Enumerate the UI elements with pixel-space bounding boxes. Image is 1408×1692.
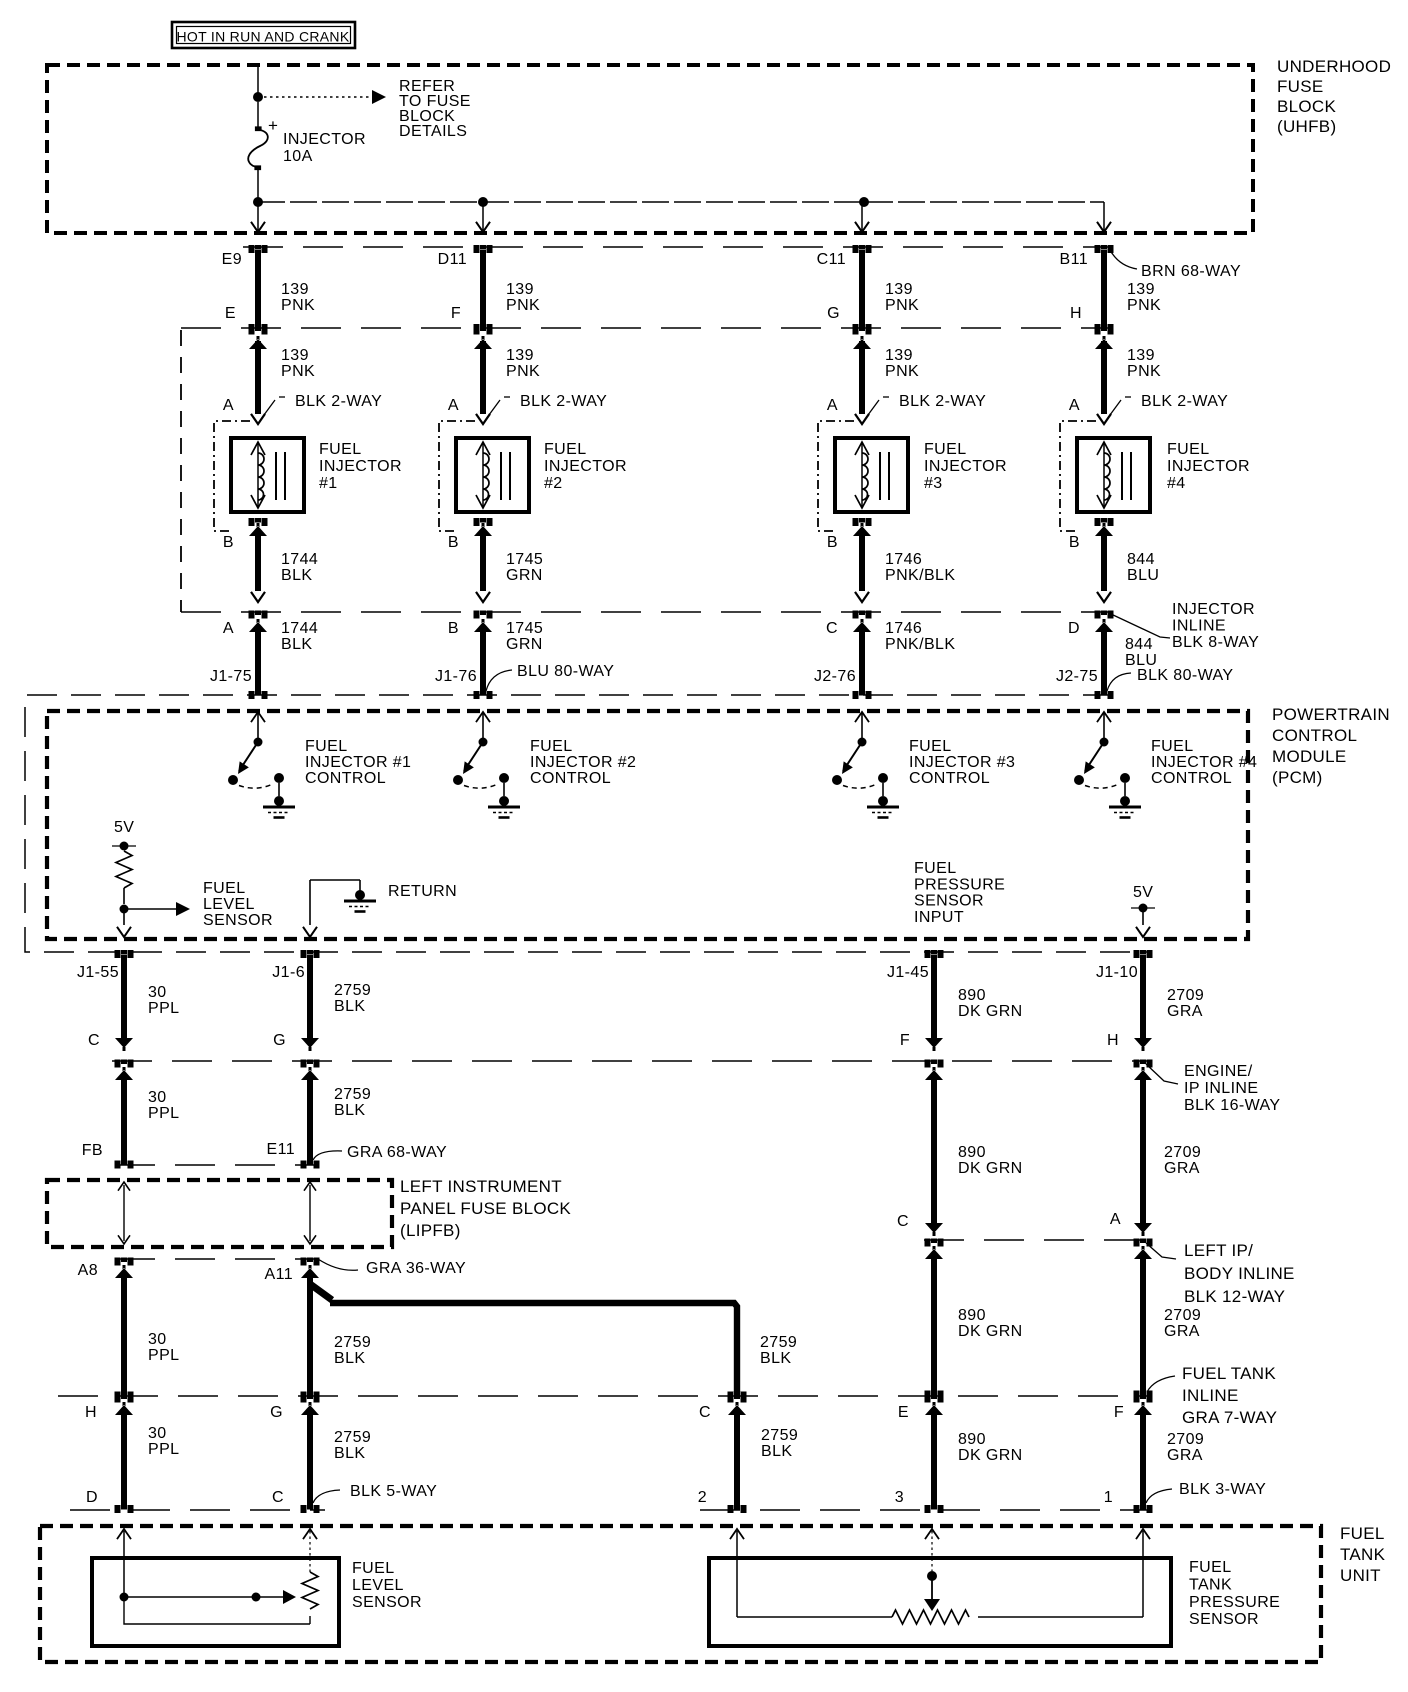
leader to BLK 2-WAY label #3 (865, 400, 879, 419)
svg-text:B: B (448, 534, 459, 551)
svg-text:LEVEL: LEVEL (352, 1577, 404, 1594)
node junction fuse output (253, 197, 263, 207)
wire 5V sense to J1-55 (123, 913, 125, 925)
ground at injector #1 driver (251, 712, 265, 722)
leader arrow to refer note (264, 96, 371, 98)
RETURN wire (309, 880, 311, 925)
leader to injector inline label (1111, 614, 1170, 638)
wire 890 DK GRN PCM J1-45 to pin F (925, 950, 944, 958)
svg-text:844: 844 (1127, 551, 1155, 568)
wire 139 PNK segment to injector #1 pin A (249, 327, 268, 335)
svg-text:J2-75: J2-75 (1056, 668, 1098, 685)
wire 139 PNK segment D11 to F (474, 245, 493, 253)
svg-text:BLK 2-WAY: BLK 2-WAY (295, 393, 382, 410)
svg-text:1746: 1746 (885, 620, 922, 637)
svg-text:C: C (699, 1404, 711, 1421)
svg-text:#4: #4 (1167, 475, 1186, 492)
svg-text:G: G (273, 1032, 286, 1049)
svg-text:INJECTOR: INJECTOR (283, 131, 366, 148)
arrow to FUEL LEVEL SENSOR label (124, 908, 176, 910)
svg-text:(LIPFB): (LIPFB) (400, 1221, 461, 1240)
svg-text:BLK 3-WAY: BLK 3-WAY (1179, 1481, 1266, 1498)
svg-text:INJECTOR #2: INJECTOR #2 (530, 754, 636, 771)
svg-text:890: 890 (958, 1431, 986, 1448)
svg-text:PPL: PPL (148, 1105, 179, 1122)
fuel level sensor box (92, 1558, 339, 1646)
svg-text:FUEL: FUEL (1340, 1524, 1385, 1543)
svg-text:2: 2 (698, 1489, 707, 1506)
svg-text:2759: 2759 (334, 1334, 371, 1351)
svg-text:1746: 1746 (885, 551, 922, 568)
svg-text:PRESSURE: PRESSURE (1189, 1594, 1280, 1611)
svg-text:139: 139 (885, 347, 913, 364)
svg-text:INJECTOR: INJECTOR (544, 458, 627, 475)
svg-text:LEFT IP/: LEFT IP/ (1184, 1241, 1253, 1260)
svg-text:TANK: TANK (1340, 1545, 1386, 1564)
svg-text:GRA: GRA (1164, 1160, 1200, 1177)
svg-text:C: C (826, 620, 838, 637)
svg-text:E: E (898, 1404, 909, 1421)
svg-text:GRA: GRA (1167, 1447, 1203, 1464)
leader to GRA 68-WAY label (313, 1151, 342, 1160)
PCM outer connector bracket (25, 695, 1150, 952)
svg-text:(UHFB): (UHFB) (1277, 117, 1336, 136)
PCM dashed boundary (47, 711, 1248, 939)
svg-text:INPUT: INPUT (914, 909, 964, 926)
svg-text:2709: 2709 (1164, 1144, 1201, 1161)
svg-text:FUEL: FUEL (352, 1560, 395, 1577)
svg-text:#3: #3 (924, 475, 943, 492)
wire inline to PCM J1-75 (249, 611, 268, 619)
svg-text:MODULE: MODULE (1272, 747, 1347, 766)
svg-text:BLK: BLK (334, 1445, 365, 1462)
svg-text:G: G (270, 1404, 283, 1421)
svg-text:FUEL: FUEL (914, 860, 957, 877)
svg-text:FB: FB (82, 1142, 103, 1159)
svg-text:1: 1 (1104, 1489, 1113, 1506)
fuel injector #1 coil (231, 438, 304, 512)
svg-text:1744: 1744 (281, 620, 318, 637)
svg-text:139: 139 (281, 347, 309, 364)
connector face line left IP body inline 12-way (924, 1239, 1147, 1241)
svg-text:C: C (897, 1213, 909, 1230)
leader to BLK 2-WAY label #2 (486, 400, 500, 419)
svg-text:2709: 2709 (1167, 1431, 1204, 1448)
connector face line row 328 (181, 327, 1112, 329)
svg-text:30: 30 (148, 1425, 167, 1442)
svg-text:2709: 2709 (1167, 987, 1204, 1004)
connector face line engine/IP inline 16-way (112, 1060, 1147, 1062)
svg-text:5V: 5V (114, 819, 134, 836)
connector bracket BLK 2-WAY #2 (439, 421, 475, 531)
leader to left IP body inline label (1146, 1243, 1176, 1259)
wire into pressure sensor right (1136, 1529, 1150, 1539)
svg-text:890: 890 (958, 1307, 986, 1324)
wire 139 PNK segment to injector #4 pin A (1095, 327, 1114, 335)
svg-text:DK GRN: DK GRN (958, 1003, 1023, 1020)
svg-text:H: H (85, 1404, 97, 1421)
wire 2709 GRA rowD pin F to 1 (1134, 1395, 1153, 1403)
svg-text:A11: A11 (265, 1266, 293, 1283)
svg-text:CONTROL: CONTROL (909, 770, 990, 787)
svg-text:C11: C11 (817, 251, 846, 268)
wire resistor return loop (124, 1601, 310, 1624)
svg-text:BLK 12-WAY: BLK 12-WAY (1184, 1287, 1285, 1306)
svg-text:J1-45: J1-45 (887, 964, 929, 981)
wire 139 PNK segment E9 to E (249, 245, 268, 253)
svg-text:POWERTRAIN: POWERTRAIN (1272, 705, 1390, 724)
svg-text:B: B (827, 534, 838, 551)
svg-text:CONTROL: CONTROL (305, 770, 386, 787)
svg-text:F: F (1114, 1404, 1124, 1421)
svg-text:F: F (900, 1032, 910, 1049)
svg-text:SENSOR: SENSOR (1189, 1611, 1259, 1628)
connector bracket BLK 2-WAY #3 (818, 421, 854, 531)
wire 30 PPL rowC col1 (115, 1258, 134, 1266)
wire injector #2 pin B to inline (474, 518, 493, 526)
svg-text:D: D (86, 1489, 98, 1506)
svg-text:30: 30 (148, 1089, 167, 1106)
svg-text:BLU 80-WAY: BLU 80-WAY (517, 663, 614, 680)
svg-text:SENSOR: SENSOR (914, 893, 984, 910)
ground at injector #3 driver (855, 712, 869, 722)
connector face line injector inline 8-way (181, 611, 1113, 613)
svg-text:C: C (88, 1032, 100, 1049)
connector face line BRN 68-WAY row (243, 246, 1112, 248)
node junction fuel level sense (120, 905, 129, 914)
svg-text:TANK: TANK (1189, 1576, 1232, 1593)
fuel injector #3 coil (835, 438, 908, 512)
leader to BRN 68-WAY label (1110, 250, 1137, 269)
svg-text:FUEL: FUEL (319, 441, 362, 458)
svg-text:BLK 80-WAY: BLK 80-WAY (1137, 667, 1233, 684)
svg-text:PNK: PNK (281, 363, 315, 380)
wire 2759 BLK rowC col2 (301, 1258, 320, 1266)
svg-text:INJECTOR: INJECTOR (319, 458, 402, 475)
fuel injector #2 coil (456, 438, 529, 512)
ground at injector #2 driver (476, 712, 490, 722)
svg-text:#1: #1 (319, 475, 338, 492)
svg-text:PRESSURE: PRESSURE (914, 876, 1005, 893)
svg-text:10A: 10A (283, 148, 313, 165)
svg-text:INJECTOR: INJECTOR (1172, 601, 1255, 618)
svg-text:BLK: BLK (761, 1443, 792, 1460)
label HOT IN RUN AND CRANK box (172, 22, 355, 48)
svg-text:B: B (1069, 534, 1080, 551)
svg-text:BRN 68-WAY: BRN 68-WAY (1141, 263, 1241, 280)
svg-text:BODY INLINE: BODY INLINE (1184, 1264, 1295, 1283)
svg-text:BLK 2-WAY: BLK 2-WAY (520, 393, 607, 410)
svg-text:J1-55: J1-55 (77, 964, 119, 981)
wire 139 PNK segment B11 to H (1095, 245, 1114, 253)
wire 139 PNK segment to injector #3 pin A (853, 327, 872, 335)
connector face line fuel tank inline 7-way (58, 1395, 1148, 1397)
svg-text:890: 890 (958, 1144, 986, 1161)
node junction bus col2 (478, 197, 488, 207)
node junction bus col3 (859, 197, 869, 207)
svg-text:INLINE: INLINE (1182, 1386, 1239, 1405)
svg-text:FUSE: FUSE (1277, 77, 1324, 96)
svg-text:BLK 2-WAY: BLK 2-WAY (1141, 393, 1228, 410)
pressure sensor wiper arrow (925, 1529, 939, 1539)
svg-text:F: F (451, 305, 461, 322)
svg-text:1745: 1745 (506, 551, 543, 568)
svg-text:E9: E9 (222, 251, 242, 268)
svg-text:J1-76: J1-76 (435, 668, 477, 685)
svg-text:PNK: PNK (1127, 297, 1161, 314)
svg-text:GRA: GRA (1167, 1003, 1203, 1020)
svg-text:A: A (1110, 1211, 1121, 1228)
svg-text:D: D (1068, 620, 1080, 637)
svg-text:1744: 1744 (281, 551, 318, 568)
svg-text:H: H (1107, 1032, 1119, 1049)
svg-text:J1-75: J1-75 (210, 668, 252, 685)
svg-text:BLK 8-WAY: BLK 8-WAY (1172, 634, 1259, 651)
engine harness boundary left edge (180, 330, 182, 612)
svg-text:BLK: BLK (334, 998, 365, 1015)
svg-text:FUEL: FUEL (544, 441, 587, 458)
svg-text:139: 139 (1127, 347, 1155, 364)
svg-text:FUEL: FUEL (530, 738, 573, 755)
svg-text:A: A (448, 397, 459, 414)
svg-text:INJECTOR #3: INJECTOR #3 (909, 754, 1015, 771)
svg-text:BLK 16-WAY: BLK 16-WAY (1184, 1097, 1280, 1114)
leader to BLK 2-WAY label #4 (1107, 400, 1121, 419)
svg-text:PNK: PNK (281, 297, 315, 314)
wire 2759 BLK PCM J1-6 to pin G (301, 950, 320, 958)
wire 30 PPL rowD pin H to D (115, 1395, 134, 1403)
svg-text:INJECTOR: INJECTOR (924, 458, 1007, 475)
ground RETURN (355, 890, 365, 900)
svg-text:844: 844 (1125, 636, 1153, 653)
left instrument panel fuse block dashed boundary (47, 1180, 392, 1247)
wire into fuel level sensor wiper (117, 1529, 131, 1539)
svg-text:PPL: PPL (148, 1441, 179, 1458)
svg-text:#2: #2 (544, 475, 563, 492)
wire inline to PCM J2-75 (1095, 611, 1114, 619)
svg-text:BLK 2-WAY: BLK 2-WAY (899, 393, 986, 410)
svg-text:2759: 2759 (334, 982, 371, 999)
svg-text:SENSOR: SENSOR (352, 1594, 422, 1611)
wire inline to PCM J2-76 (853, 611, 872, 619)
wire UHFB output drop B11 (1103, 202, 1105, 230)
svg-text:PNK/BLK: PNK/BLK (885, 636, 955, 653)
svg-text:FUEL: FUEL (203, 880, 246, 897)
svg-text:CONTROL: CONTROL (1272, 726, 1357, 745)
svg-text:BLK: BLK (334, 1350, 365, 1367)
wire 139 PNK segment to injector #2 pin A (474, 327, 493, 335)
svg-text:139: 139 (281, 281, 309, 298)
fuel level sensor resistor (303, 1529, 317, 1539)
svg-text:CONTROL: CONTROL (530, 770, 611, 787)
svg-text:(PCM): (PCM) (1272, 768, 1323, 787)
svg-text:FUEL: FUEL (1167, 441, 1210, 458)
wire 2759 BLK rowB col2 (301, 1060, 320, 1068)
svg-text:RETURN: RETURN (388, 883, 457, 900)
leader to BLK 80-WAY label (1107, 673, 1131, 691)
wire into pressure sensor left (730, 1529, 744, 1539)
connector face line fuel tank unit right (700, 1509, 1148, 1511)
svg-text:BLK 5-WAY: BLK 5-WAY (350, 1483, 437, 1500)
svg-text:+: + (268, 116, 278, 135)
svg-text:3: 3 (895, 1489, 904, 1506)
pressure sensor resistor (737, 1616, 892, 1618)
svg-text:A8: A8 (78, 1262, 98, 1279)
connector bracket BLK 2-WAY #1 (214, 421, 250, 531)
svg-text:1745: 1745 (506, 620, 543, 637)
wire 2759 BLK rowD pin G to C (301, 1395, 320, 1403)
svg-text:E: E (225, 305, 236, 322)
wire UHFB output drop E9 (257, 202, 259, 230)
connector bracket BLK 2-WAY #4 (1060, 421, 1096, 531)
svg-text:FUEL: FUEL (1189, 1559, 1232, 1576)
svg-text:PNK: PNK (506, 363, 540, 380)
node junction wiper (120, 1593, 129, 1602)
svg-text:139: 139 (506, 281, 534, 298)
svg-text:GRA 68-WAY: GRA 68-WAY (347, 1144, 447, 1161)
svg-text:PPL: PPL (148, 1347, 179, 1364)
svg-text:PNK/BLK: PNK/BLK (885, 567, 955, 584)
svg-text:GRA 36-WAY: GRA 36-WAY (366, 1260, 466, 1277)
svg-text:INJECTOR: INJECTOR (1167, 458, 1250, 475)
wire 2709 GRA PCM J1-10 to pin H (1134, 950, 1153, 958)
svg-text:2759: 2759 (334, 1086, 371, 1103)
svg-text:PPL: PPL (148, 1000, 179, 1017)
wire 30 PPL PCM J1-55 to pin C (115, 950, 134, 958)
svg-text:FUEL: FUEL (1151, 738, 1194, 755)
connector face line LIPFB top (115, 1164, 318, 1166)
leader to BLK 5-WAY label (313, 1490, 340, 1503)
leader to BLK 2-WAY label #1 (261, 400, 275, 419)
svg-text:5V: 5V (1133, 884, 1153, 901)
svg-text:INJECTOR #1: INJECTOR #1 (305, 754, 411, 771)
svg-text:INLINE: INLINE (1172, 618, 1226, 635)
svg-text:BLK: BLK (334, 1102, 365, 1119)
svg-text:ENGINE/: ENGINE/ (1184, 1063, 1253, 1080)
svg-text:FUEL: FUEL (924, 441, 967, 458)
wire inline to PCM J1-76 (474, 611, 493, 619)
wire 2709 GRA rowC col4 (1134, 1239, 1153, 1247)
svg-text:139: 139 (885, 281, 913, 298)
wire injector #1 pin B to inline (249, 518, 268, 526)
svg-text:C: C (272, 1489, 284, 1506)
svg-text:UNIT: UNIT (1340, 1566, 1381, 1585)
fuse INJECTOR 10A (257, 102, 259, 127)
svg-text:J1-6: J1-6 (272, 964, 305, 981)
svg-text:HOT IN RUN AND CRANK: HOT IN RUN AND CRANK (177, 29, 350, 45)
svg-text:A: A (827, 397, 838, 414)
node junction at fuse top (253, 92, 263, 102)
connector face line fuel tank unit left (70, 1509, 325, 1511)
wire 2759 BLK branch to fuel tank connector pin C (310, 1284, 332, 1300)
svg-text:PANEL FUSE BLOCK: PANEL FUSE BLOCK (400, 1199, 571, 1218)
svg-text:A: A (1069, 397, 1080, 414)
svg-text:FUEL TANK: FUEL TANK (1182, 1364, 1276, 1383)
svg-text:DK GRN: DK GRN (958, 1323, 1023, 1340)
underhood fuse block UHFB dashed boundary (47, 65, 1253, 233)
svg-text:FUEL: FUEL (909, 738, 952, 755)
svg-text:2709: 2709 (1164, 1307, 1201, 1324)
svg-text:LEFT INSTRUMENT: LEFT INSTRUMENT (400, 1177, 562, 1196)
UHFB feed bus wire (258, 201, 1104, 203)
wire 30 PPL rowB left col1 (115, 1060, 134, 1068)
svg-text:B: B (223, 534, 234, 551)
wire 139 PNK segment C11 to G (853, 245, 872, 253)
svg-text:LEVEL: LEVEL (203, 896, 255, 913)
svg-text:INJECTOR #4: INJECTOR #4 (1151, 754, 1257, 771)
fuse path A8 in LIPFB (123, 1185, 125, 1241)
svg-text:2759: 2759 (334, 1429, 371, 1446)
svg-text:BLK: BLK (281, 636, 312, 653)
wire 890 DK GRN rowB col3 (925, 1060, 944, 1068)
leader to BLU 80-WAY label (486, 670, 512, 691)
leader to engine/IP inline label (1146, 1064, 1178, 1084)
leader to fuel tank inline label (1147, 1376, 1175, 1392)
pull-up resistor fuel level sense (116, 851, 132, 888)
leader to BLK 3-WAY label (1146, 1489, 1172, 1503)
svg-text:30: 30 (148, 1331, 167, 1348)
leader to GRA 36-WAY label (318, 1259, 358, 1270)
fuel tank unit dashed boundary (40, 1526, 1321, 1662)
svg-text:GRA 7-WAY: GRA 7-WAY (1182, 1408, 1277, 1427)
svg-text:PNK: PNK (885, 363, 919, 380)
svg-text:B11: B11 (1060, 251, 1088, 268)
svg-text:A: A (223, 620, 234, 637)
svg-text:D11: D11 (438, 251, 467, 268)
connector face line LIPFB bottom (115, 1258, 318, 1260)
svg-text:139: 139 (1127, 281, 1155, 298)
wire injector #3 pin B to inline (853, 518, 872, 526)
svg-text:890: 890 (958, 987, 986, 1004)
svg-text:H: H (1070, 305, 1082, 322)
svg-text:IP INLINE: IP INLINE (1184, 1080, 1258, 1097)
svg-text:PNK: PNK (506, 297, 540, 314)
svg-text:DK GRN: DK GRN (958, 1160, 1023, 1177)
svg-text:SENSOR: SENSOR (203, 912, 273, 929)
svg-text:GRN: GRN (506, 567, 543, 584)
svg-text:GRA: GRA (1164, 1323, 1200, 1340)
svg-text:CONTROL: CONTROL (1151, 770, 1232, 787)
wire 890 DK GRN rowD pin E to 3 (925, 1395, 944, 1403)
svg-text:DETAILS: DETAILS (399, 123, 467, 140)
svg-text:UNDERHOOD: UNDERHOOD (1277, 57, 1391, 76)
ground at injector #4 driver (1097, 712, 1111, 722)
svg-text:B: B (448, 620, 459, 637)
wire 890 DK GRN rowC col3 (925, 1239, 944, 1247)
wire from HOT feed into fuse block (257, 65, 259, 94)
svg-text:PNK: PNK (885, 297, 919, 314)
fuel injector #4 coil (1077, 438, 1150, 512)
svg-text:J1-10: J1-10 (1096, 964, 1138, 981)
wire UHFB output drop C11 (861, 202, 863, 230)
svg-text:G: G (827, 305, 840, 322)
svg-text:BLK: BLK (281, 567, 312, 584)
svg-text:E11: E11 (267, 1141, 295, 1158)
svg-text:139: 139 (506, 347, 534, 364)
svg-text:A: A (223, 397, 234, 414)
svg-text:PNK: PNK (1127, 363, 1161, 380)
wire UHFB output drop D11 (482, 202, 484, 230)
wire injector #4 pin B to inline (1095, 518, 1114, 526)
wire 2709 GRA rowB col4 (1134, 1060, 1153, 1068)
svg-text:30: 30 (148, 984, 167, 1001)
fuse path A11 in LIPFB (309, 1185, 311, 1241)
svg-text:BLU: BLU (1127, 567, 1159, 584)
svg-text:J2-76: J2-76 (814, 668, 856, 685)
svg-text:GRN: GRN (506, 636, 543, 653)
svg-text:2759: 2759 (760, 1334, 797, 1351)
fuel tank pressure sensor box (709, 1558, 1171, 1646)
